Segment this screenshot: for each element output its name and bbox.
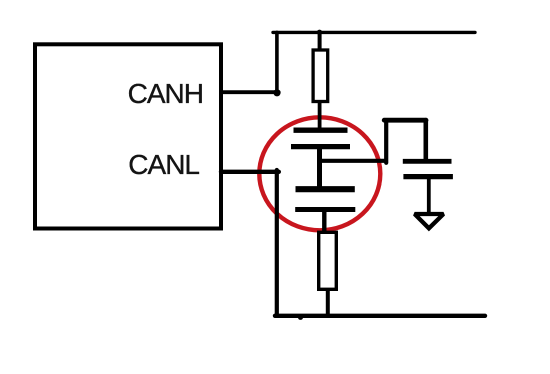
junction dot CANH corner (273, 89, 280, 96)
capacitor C3 (403, 161, 453, 176)
pin label CANH (128, 78, 203, 109)
transceiver box (35, 44, 221, 228)
wire R2 to bottom rail (326, 289, 330, 316)
wire CANH pin to corner (221, 90, 279, 94)
svg-text:CANH: CANH (128, 78, 203, 109)
pin label CANL (128, 149, 199, 180)
wire CANL pin to corner (221, 170, 279, 174)
capacitor C1 (291, 130, 350, 146)
wire top rail (273, 31, 475, 34)
wire C2 to R2 (322, 210, 326, 233)
wire bottom rail (275, 314, 485, 318)
junction dot bottom rail (298, 315, 303, 320)
wire tap vertical up (384, 120, 388, 163)
svg-text:CANL: CANL (128, 149, 199, 180)
resistor R2 (319, 232, 337, 289)
resistor R1 (313, 50, 328, 102)
capacitor C2 (295, 189, 355, 209)
wire R1 to C1 (318, 102, 322, 130)
wire CANH vertical up (275, 32, 279, 92)
wire CANL vertical down (275, 170, 279, 316)
wire C1 to C2 (midpoint lead) (317, 147, 322, 187)
wire midpoint tap (318, 159, 388, 163)
ground (415, 214, 444, 228)
junction dot rail-R1 (317, 30, 322, 35)
wire rail to R1 (318, 32, 322, 50)
wire C3 to ground (427, 177, 431, 212)
wire down to C3 (423, 120, 428, 159)
wire tap horizontal to C3 (384, 118, 426, 123)
annotation red circle (259, 117, 380, 230)
